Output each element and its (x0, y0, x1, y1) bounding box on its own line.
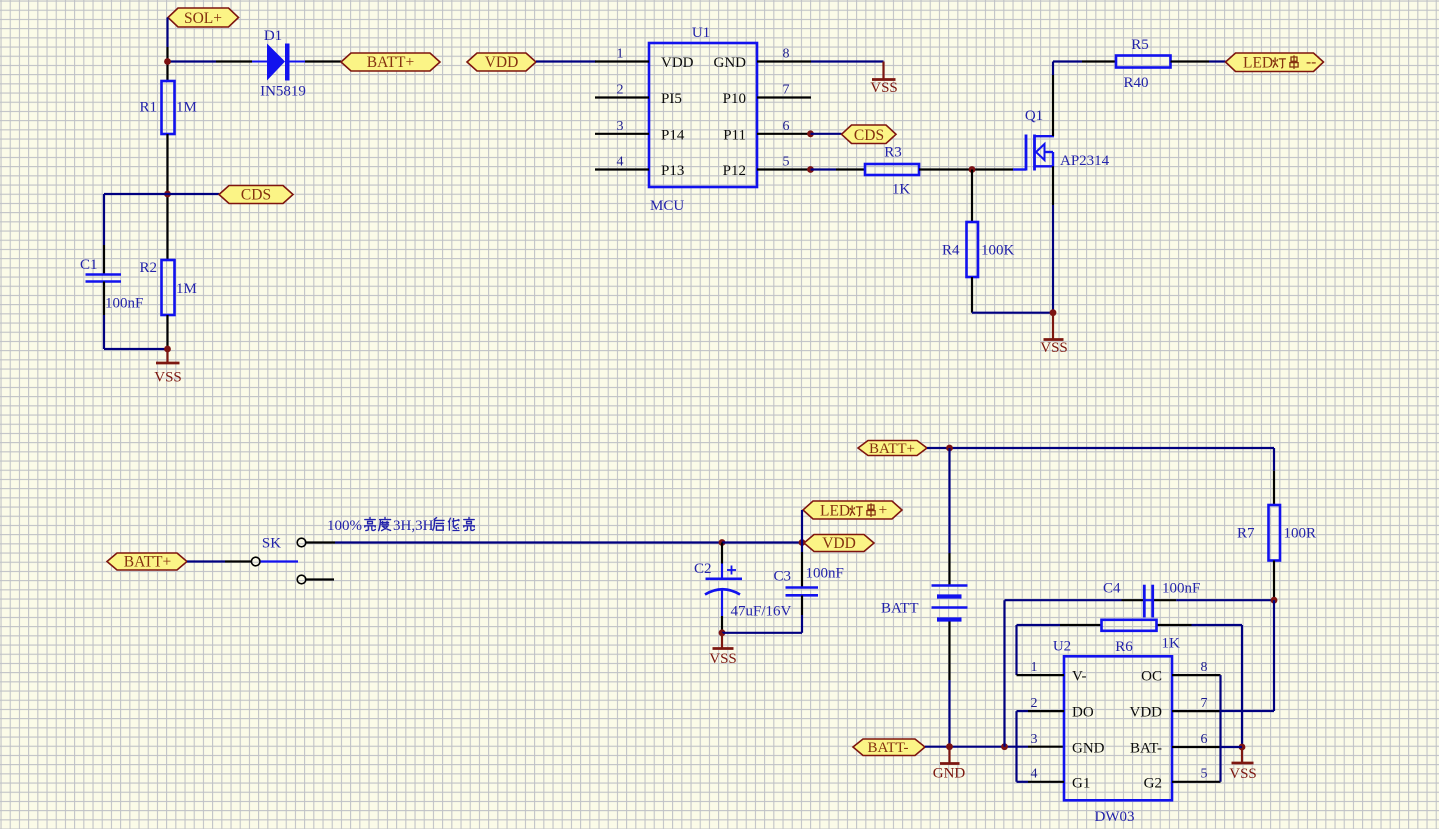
svg-text:LED: LED (1243, 55, 1273, 72)
svg-text:2: 2 (1031, 696, 1038, 711)
svg-text:8: 8 (1201, 660, 1208, 675)
svg-text:P14: P14 (661, 127, 685, 143)
svg-text:R5: R5 (1131, 37, 1149, 53)
net label BATT- (853, 739, 925, 756)
svg-text:47uF/16V: 47uF/16V (731, 604, 792, 620)
wire battery bottom (948, 622, 950, 747)
wire BATT+ rail to R7 (927, 448, 1274, 505)
wire LED/VDD vertical (801, 510, 803, 587)
svg-text:P11: P11 (723, 127, 746, 143)
svg-text:BATT: BATT (881, 601, 919, 617)
svg-text:BATT-: BATT- (867, 740, 908, 756)
node VDD junction (799, 539, 806, 546)
svg-text:U2: U2 (1053, 639, 1071, 655)
node R4 junction (969, 166, 976, 173)
net label BATT+ (right) (858, 441, 927, 458)
pin 5 U1 P12 (723, 155, 811, 180)
pin 8 U2 OC (1141, 660, 1220, 685)
svg-text:GND: GND (933, 766, 966, 782)
svg-text:100K: 100K (981, 243, 1015, 259)
node C4-left junction (1001, 743, 1008, 750)
svg-text:2: 2 (617, 83, 624, 98)
wire C4 line (1005, 599, 1275, 601)
svg-text:1M: 1M (176, 281, 197, 297)
power VSS (C2) (709, 633, 737, 667)
svg-text:Q1: Q1 (1025, 108, 1043, 124)
resistor R5 (1116, 37, 1171, 91)
svg-text:--: -- (1306, 54, 1316, 71)
svg-text:D1: D1 (264, 28, 282, 44)
svg-text:C2: C2 (694, 561, 712, 577)
wire pin5 to R3 (811, 168, 866, 170)
switch SK (251, 536, 305, 584)
node C4/R7 junction (1271, 597, 1278, 604)
svg-text:6: 6 (1201, 732, 1208, 747)
svg-text:PI5: PI5 (661, 91, 682, 107)
node VSS junction (164, 346, 171, 353)
svg-text:CDS: CDS (854, 127, 884, 144)
wire C2 junction to VDD junction (722, 541, 802, 543)
svg-text:G2: G2 (1144, 775, 1162, 791)
wire R6 line (1017, 625, 1243, 747)
svg-text:3H,3H: 3H,3H (393, 518, 434, 534)
wire BATT+ to switch pole (187, 560, 251, 562)
wire VDD to U1 pin1 (536, 60, 596, 62)
svg-text:R7: R7 (1237, 526, 1255, 542)
svg-text:VSS: VSS (154, 370, 182, 386)
wire junction down to pin7 (1221, 600, 1275, 711)
net label CDS (219, 186, 293, 204)
svg-text:+: + (879, 502, 888, 519)
svg-text:R40: R40 (1123, 75, 1148, 91)
svg-text:VSS: VSS (709, 651, 737, 667)
svg-text:7: 7 (1201, 696, 1208, 711)
svg-text:4: 4 (617, 155, 624, 170)
svg-text:MCU: MCU (650, 198, 684, 214)
pin 3 U1 P14 (595, 119, 685, 144)
power VSS (Q1) (1040, 313, 1068, 356)
wire C2 down (721, 590, 723, 633)
svg-text:SK: SK (262, 536, 281, 552)
net label VDD (bottom) (804, 535, 874, 553)
power VSS (U1) (870, 80, 898, 97)
svg-text:R1: R1 (139, 100, 157, 116)
wire R3 to gate (919, 168, 1026, 170)
net label BATT+ (341, 53, 440, 71)
node pin6 junction (807, 130, 814, 137)
wire Q1 source down (1052, 166, 1054, 312)
svg-text:5: 5 (783, 155, 790, 170)
wire throw to C2 junction (306, 541, 722, 543)
svg-text:BATT+: BATT+ (367, 54, 415, 71)
wire pin6 to CDS (811, 133, 842, 135)
svg-text:G1: G1 (1072, 775, 1090, 791)
power GND (933, 747, 966, 782)
battery BATT (881, 586, 968, 620)
power VSS (U2) (1229, 747, 1257, 782)
pin 2 U2 DO (1017, 696, 1094, 721)
svg-text:P10: P10 (723, 91, 746, 107)
svg-text:IN5819: IN5819 (260, 84, 306, 100)
pin 6 U2 BAT- (1130, 732, 1242, 757)
net label LED灯串+ (803, 501, 902, 520)
svg-text:BATT+: BATT+ (124, 554, 172, 571)
wire Q1 drain up (1052, 62, 1054, 137)
pin 5 U2 G2 (1144, 767, 1221, 792)
svg-text:VDD: VDD (661, 55, 694, 71)
node source/R4 junction (1050, 309, 1057, 316)
pin 6 U1 P11 (723, 119, 811, 144)
svg-text:100nF: 100nF (105, 296, 143, 312)
svg-text:BATT+: BATT+ (869, 441, 915, 457)
wire junction to R4 (971, 170, 973, 223)
svg-text:DO: DO (1072, 705, 1094, 721)
wire C1 branch (104, 194, 168, 274)
svg-text:6: 6 (783, 119, 790, 134)
svg-text:OC: OC (1141, 669, 1162, 685)
node pin6 VSS junction (1239, 744, 1246, 751)
svg-text:1M: 1M (176, 100, 197, 116)
wire junction to D1 (168, 60, 268, 62)
wire pin8 to VSS (811, 62, 884, 80)
svg-text:8: 8 (783, 47, 790, 62)
svg-text:R4: R4 (942, 243, 960, 259)
svg-text:R3: R3 (884, 145, 902, 161)
net label CDS (right) (842, 125, 897, 144)
wire junction to CDS label (168, 193, 220, 195)
svg-text:7: 7 (783, 83, 790, 98)
svg-text:DW03: DW03 (1095, 809, 1135, 825)
wire C2 vertical top (721, 543, 723, 579)
resistor R3 (865, 145, 919, 198)
wire pins2-4 bracket (1015, 711, 1017, 782)
svg-text:VSS: VSS (870, 80, 898, 96)
svg-text:GND: GND (1072, 741, 1105, 757)
wire corner to R5 (1053, 60, 1116, 62)
svg-text:3: 3 (617, 119, 624, 134)
capacitor C3 (774, 566, 844, 596)
pin 4 U2 G1 (1017, 767, 1091, 792)
pin 3 U2 GND (1031, 732, 1105, 757)
node BATT+ junction (946, 445, 953, 452)
node C2/C3 bottom junction (719, 629, 726, 636)
wire C1 to bottom (104, 282, 168, 350)
wire battery top (948, 448, 950, 585)
svg-text:CDS: CDS (241, 187, 271, 204)
resistor R2 (139, 260, 196, 315)
svg-text:VDD: VDD (822, 535, 856, 552)
wire throw stub lower (306, 578, 334, 580)
svg-text:3: 3 (1031, 732, 1038, 747)
svg-text:R2: R2 (139, 260, 157, 276)
svg-text:VSS: VSS (1040, 340, 1068, 356)
net label BATT+ (left) (107, 553, 187, 571)
svg-text:4: 4 (1031, 767, 1038, 782)
node GND junction (946, 743, 953, 750)
node SOL+/R1/D1 junction (164, 58, 171, 65)
svg-text:VDD: VDD (485, 54, 519, 71)
pin 7 U2 VDD (1130, 696, 1221, 721)
wire D1 to BATT+ (290, 61, 342, 63)
svg-text:LED: LED (820, 503, 850, 520)
svg-text:100%: 100% (327, 518, 362, 534)
svg-text:V-: V- (1072, 669, 1086, 685)
capacitor C2 (694, 561, 792, 620)
svg-text:100nF: 100nF (1162, 581, 1200, 597)
svg-text:100nF: 100nF (806, 566, 844, 582)
resistor R6 (1102, 620, 1181, 655)
svg-text:P12: P12 (723, 163, 746, 179)
net label LED灯串-- (1226, 53, 1324, 72)
resistor R7 (1237, 505, 1316, 561)
node C2 junction top (719, 539, 726, 546)
node pin5 junction (807, 166, 814, 173)
svg-text:P13: P13 (661, 163, 684, 179)
svg-text:1K: 1K (892, 182, 911, 198)
diode D1 (260, 28, 306, 100)
pin 7 U1 P10 (723, 83, 811, 108)
resistor R1 (139, 81, 196, 134)
pin 8 U1 GND (714, 47, 812, 72)
wire C3 down (801, 596, 803, 633)
svg-text:5: 5 (1201, 767, 1208, 782)
svg-text:R6: R6 (1115, 639, 1133, 655)
svg-text:VDD: VDD (1130, 705, 1163, 721)
wire bottom rail C2-C3 (722, 632, 802, 634)
svg-text:AP2314: AP2314 (1060, 153, 1110, 169)
wire BATT- rail (925, 746, 1064, 748)
wire SOL+ down to junction (166, 18, 168, 82)
pin 1 U2 V- (1017, 660, 1087, 685)
net label SOL+ (168, 8, 239, 27)
svg-text:C3: C3 (774, 569, 792, 585)
svg-text:BAT-: BAT- (1130, 741, 1162, 757)
capacitor C4 (1103, 581, 1200, 618)
svg-text:GND: GND (714, 55, 747, 71)
svg-text:1: 1 (617, 47, 624, 62)
svg-text:C4: C4 (1103, 581, 1121, 597)
wire R2 to VSS junction (166, 315, 168, 349)
wire R5 to LED label (1171, 60, 1226, 62)
power VSS (left) (154, 349, 182, 386)
wire pins8-5 bracket (1219, 675, 1221, 782)
wire C4 left drop (1003, 600, 1005, 747)
svg-text:1K: 1K (1162, 636, 1181, 652)
transistor Q1 (1025, 108, 1110, 171)
pin 4 U1 P13 (595, 155, 684, 180)
op-amp U1 body (649, 25, 757, 214)
wire R1 to CDS junction (166, 134, 168, 260)
wire R4 to VSS corner (972, 277, 1053, 313)
node CDS junction (164, 191, 171, 198)
text 100%亮度3H,3H后低亮 (327, 517, 474, 534)
svg-text:SOL+: SOL+ (184, 10, 222, 27)
svg-text:U1: U1 (692, 25, 710, 41)
wire R7 to C4 junction (1273, 561, 1275, 601)
svg-text:VSS: VSS (1229, 766, 1257, 782)
resistor R4 (942, 222, 1015, 277)
capacitor C1 (80, 257, 143, 312)
svg-text:100R: 100R (1284, 526, 1317, 542)
IC U2 body (1053, 639, 1172, 826)
pin 2 U1 PI5 (595, 83, 682, 108)
net label VDD (top) (467, 53, 536, 71)
svg-text:1: 1 (1031, 660, 1038, 675)
svg-text:C1: C1 (80, 257, 98, 273)
pin 1 U1 VDD (595, 47, 694, 72)
